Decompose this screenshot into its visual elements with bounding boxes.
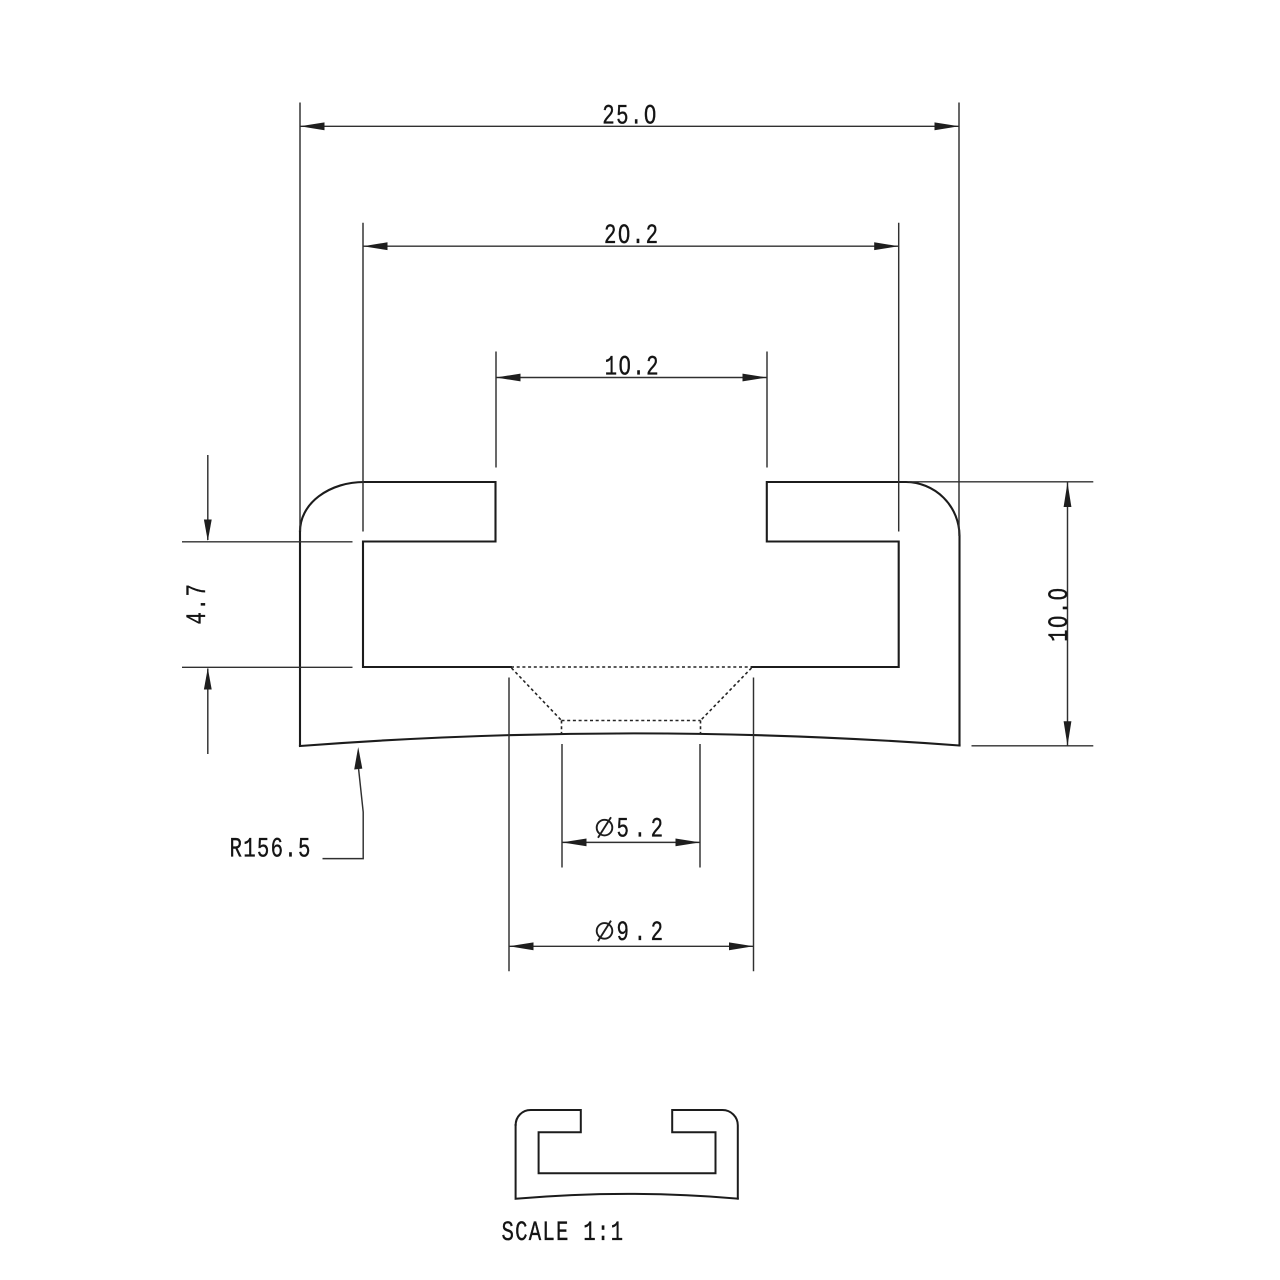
- wire ext 4.7 bottom: [182, 666, 353, 668]
- wire ext 4.7 top: [182, 541, 353, 543]
- wire dim line 5.2: [562, 841, 700, 843]
- svg-text:25.O: 25.O: [602, 101, 656, 133]
- svg-text:5.2: 5.2: [617, 814, 664, 846]
- wire right lip: [752, 482, 960, 746]
- node arrow 25.0 right: [935, 122, 960, 130]
- node arrow 9.2 right: [729, 942, 754, 950]
- node diameter symbol for 9.2: [597, 921, 613, 942]
- wire ext 10.2 left: [495, 352, 497, 468]
- wire ext 9.2 right: [753, 678, 755, 972]
- node arrow 4.7 bottom: [204, 668, 212, 690]
- wire dim line 10.0: [1067, 483, 1069, 746]
- node arrow leader R156.5: [354, 747, 362, 770]
- svg-text:4.7: 4.7: [182, 584, 214, 624]
- node arrow 4.7 top: [204, 520, 212, 542]
- wire small profile outline: [516, 1110, 738, 1199]
- wire ext 5.2 left: [561, 744, 563, 868]
- svg-text:1O.O: 1O.O: [1044, 588, 1076, 642]
- wire countersink left cone: [512, 668, 562, 721]
- wire small profile bottom: [516, 1125, 738, 1199]
- wire left outer edge: [299, 531, 301, 746]
- dimension texts: [182, 101, 1076, 1249]
- node arrow 10.0 bottom: [1064, 721, 1072, 746]
- wire ext 20.2 right: [898, 223, 900, 532]
- node arrow 10.2 left: [496, 374, 521, 382]
- wire ext 10.0 top: [909, 481, 1093, 483]
- wire ext 10.2 right: [766, 352, 768, 468]
- wire ext 25.0 right: [958, 103, 960, 537]
- svg-text:SCALE 1:1: SCALE 1:1: [502, 1217, 624, 1249]
- wire ext 5.2 right: [699, 744, 701, 868]
- wire leader R156.5: [323, 769, 364, 859]
- svg-text:1O.2: 1O.2: [605, 352, 659, 384]
- wire countersink right cone: [701, 668, 752, 721]
- wire dim line 4.7 upper: [207, 455, 209, 540]
- node arrow 9.2 left: [509, 942, 534, 950]
- svg-text:2O.2: 2O.2: [604, 220, 658, 252]
- arrowheads: [204, 122, 1072, 950]
- node arrow 5.2 right: [676, 839, 701, 847]
- node arrow 20.2 left: [363, 242, 388, 250]
- wire ext 10.0 bottom: [972, 745, 1094, 747]
- svg-text:9.2: 9.2: [617, 917, 664, 949]
- svg-text:R156.5: R156.5: [230, 834, 311, 866]
- wire dim line 10.2: [496, 377, 767, 379]
- wire through hole right: [700, 721, 702, 735]
- wire dim line 20.2: [363, 245, 899, 247]
- wire ext 20.2 left: [362, 223, 364, 532]
- wire countersink bottom: [562, 720, 701, 722]
- wire dim line 9.2: [509, 945, 754, 947]
- main profile outline: [300, 482, 960, 746]
- dimension extension lines: [182, 103, 1093, 972]
- node arrow 20.2 right: [874, 242, 899, 250]
- wire ext 25.0 left: [299, 103, 301, 532]
- small scale profile: [516, 1110, 738, 1199]
- wire ext 9.2 left: [508, 678, 510, 972]
- node countersink mouth: [511, 666, 752, 668]
- wire bottom curved edge R156.5: [300, 733, 960, 746]
- hidden countersunk hole: [511, 667, 752, 735]
- wire dim line 25.0: [300, 125, 959, 127]
- node arrow 5.2 left: [562, 839, 587, 847]
- node diameter symbol for 5.2: [597, 817, 613, 838]
- node arrow 25.0 left: [300, 122, 325, 130]
- node arrow 10.0 top: [1064, 483, 1072, 508]
- node arrow 10.2 right: [743, 374, 768, 382]
- wire through hole left: [561, 721, 563, 735]
- wire dim line 4.7 lower: [207, 669, 209, 755]
- wire left lip: [300, 482, 511, 667]
